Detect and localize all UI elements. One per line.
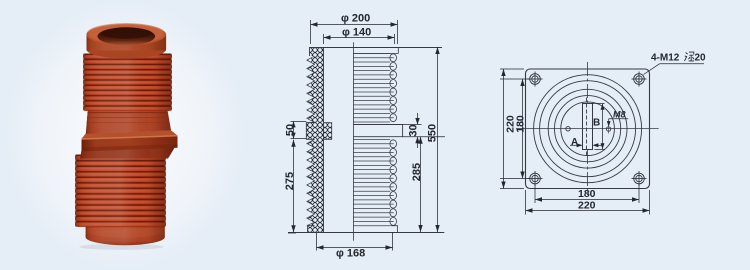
- svg-text:φ 200: φ 200: [341, 13, 370, 25]
- lower rib lines: [353, 139, 390, 141]
- svg-text:50: 50: [285, 124, 297, 136]
- svg-text:220: 220: [578, 199, 596, 211]
- label M8: [607, 110, 629, 127]
- dim phi140: [324, 26, 395, 44]
- svg-text:180: 180: [578, 188, 596, 200]
- corner hole BL: [528, 171, 543, 186]
- flange top face: [82, 130, 178, 139]
- left column inner edge: [323, 47, 325, 232]
- left column outer top: [309, 47, 311, 56]
- right half exterior: [353, 47, 403, 232]
- left foot: [308, 226, 315, 232]
- dim B: [592, 103, 604, 149]
- corner hole BR: [632, 171, 647, 186]
- centerline: [353, 42, 355, 241]
- svg-text:φ 140: φ 140: [342, 26, 371, 38]
- lower rib stack: [75, 155, 166, 227]
- dim 180 bottom: [535, 184, 639, 203]
- upper rib stack: [83, 54, 172, 111]
- dim 180 left: [500, 79, 529, 179]
- upper rib lines: [353, 53, 390, 55]
- svg-text:30: 30: [408, 124, 420, 136]
- top collar cylinder: [87, 24, 167, 59]
- left zigzag lower: [307, 139, 315, 225]
- dim 285: [411, 137, 423, 232]
- small hole right M8: [606, 127, 610, 131]
- vertical centerline: [587, 62, 589, 103]
- left zigzag upper: [307, 56, 315, 123]
- dim 220 bottom: [526, 190, 650, 215]
- svg-text:275: 275: [284, 172, 296, 190]
- small hole left: [566, 127, 570, 131]
- slot dashed line: [586, 98, 588, 156]
- svg-text:M8: M8: [613, 110, 626, 120]
- center slot: [583, 104, 593, 150]
- flange front face: [82, 136, 178, 152]
- dim 275: [284, 140, 296, 233]
- top face line + 550 extension: [310, 47, 443, 49]
- dim 550: [427, 47, 440, 232]
- label 4-M12 deep20: [644, 53, 705, 75]
- product photo: [75, 24, 178, 250]
- dim phi168: [317, 232, 393, 260]
- dim 30: [403, 113, 445, 148]
- dim 50: [285, 121, 307, 138]
- left boss outline: [306, 123, 314, 140]
- dim 220 left: [500, 69, 524, 189]
- bottom line: [288, 232, 444, 234]
- corner hole TL: [528, 72, 543, 87]
- corner hole TR: [632, 72, 647, 87]
- collar right edge: [397, 47, 399, 54]
- svg-text:180: 180: [515, 115, 527, 133]
- lower wave edge: [390, 140, 397, 226]
- svg-text:550: 550: [427, 124, 439, 142]
- svg-text:4-M12: 4-M12: [651, 53, 680, 64]
- plate outline: [526, 69, 650, 189]
- dim A: [570, 137, 603, 148]
- upper wave edge: [390, 54, 397, 122]
- dimensions of section view: [284, 13, 445, 260]
- horizontal centerline: [516, 128, 659, 130]
- concentric circles: [534, 75, 642, 183]
- hatch fill left column: [306, 47, 331, 232]
- bottom base disc: [80, 224, 165, 250]
- photo backdrop halo: [5, 0, 245, 270]
- flange right: [353, 125, 403, 137]
- dim phi200: [311, 13, 398, 45]
- svg-text:B: B: [593, 118, 600, 129]
- throat under flange: [80, 147, 175, 159]
- hanzi shen 20: [684, 52, 706, 63]
- svg-text:20: 20: [695, 53, 707, 64]
- right foot: [391, 226, 398, 232]
- right view dimensions: [500, 52, 706, 214]
- svg-text:φ 168: φ 168: [336, 248, 365, 260]
- neck above flange: [86, 108, 171, 135]
- svg-text:285: 285: [411, 163, 423, 181]
